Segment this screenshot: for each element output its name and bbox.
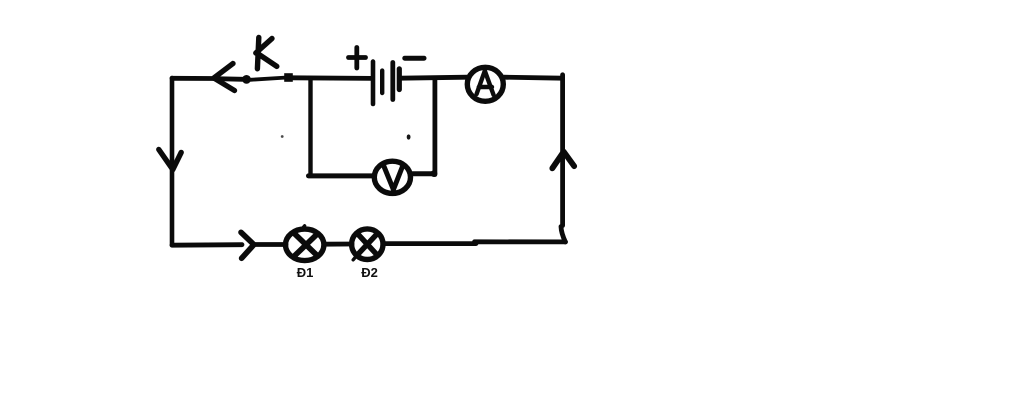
voltmeter branch bottom wire	[309, 173, 375, 178]
battery plate short	[380, 71, 384, 93]
battery plate short	[397, 69, 402, 90]
wire switch to battery	[293, 75, 372, 80]
wire battery to ammeter	[400, 77, 468, 78]
lamp D2 cross	[358, 234, 377, 255]
wire right vertical	[560, 75, 565, 226]
label K	[256, 38, 277, 69]
stray dot right	[407, 134, 411, 139]
voltmeter V1 circle	[374, 161, 410, 193]
wire arrow to lamp D1	[254, 242, 286, 247]
wire left vertical	[170, 78, 175, 245]
lamp D1 circle	[286, 229, 324, 261]
lamp D2 circle	[352, 229, 383, 260]
switch K contact dot right	[284, 73, 293, 82]
lamp D1 cross	[294, 233, 318, 256]
voltmeter letter V	[383, 164, 403, 190]
voltmeter branch right vertical wire	[432, 79, 437, 175]
wire arrow to switch	[214, 76, 244, 82]
voltmeter branch left vertical wire	[308, 79, 312, 176]
battery plate long +	[371, 62, 376, 104]
wire top-left segment	[172, 76, 214, 81]
arrow current direction right on bottom wire	[241, 232, 254, 258]
ammeter letter A	[477, 71, 494, 95]
wire ammeter to top-right corner	[503, 77, 562, 78]
wire between lamps	[324, 242, 352, 247]
wire bottom right segment	[475, 239, 566, 244]
arrow current direction up on right wire	[552, 152, 574, 169]
ammeter A1 circle	[467, 67, 503, 101]
label D2	[349, 265, 391, 280]
wire bottom left segment	[172, 242, 242, 247]
arrow current direction left on top wire	[214, 64, 235, 91]
voltmeter right stub wire	[410, 171, 432, 176]
battery + sign	[349, 48, 366, 69]
label D1	[284, 265, 326, 280]
arrow current direction down on left wire	[159, 150, 181, 170]
stray dot left	[281, 135, 284, 138]
battery plate long	[390, 63, 395, 100]
lamp D1 top pip	[302, 226, 304, 229]
wire right corner hook	[561, 227, 565, 243]
wire lamp D2 to step	[383, 241, 476, 246]
voltmeter branch corner blob	[431, 170, 438, 177]
switch K contact dot left	[242, 75, 251, 84]
battery - sign	[405, 56, 424, 61]
switch K blade	[250, 78, 285, 80]
lamp D2 bottom tail	[353, 257, 356, 260]
